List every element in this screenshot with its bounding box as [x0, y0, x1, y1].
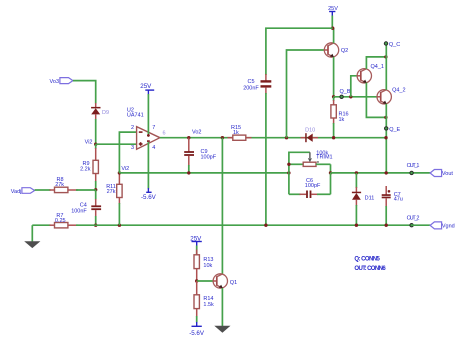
- svg-text:Q1: Q1: [230, 280, 237, 286]
- svg-text:Vo2: Vo2: [192, 130, 201, 136]
- svg-text:Vgnd: Vgnd: [442, 224, 455, 230]
- wire 25V to Q2 collector: [333, 28, 335, 43]
- svg-text:Vi2: Vi2: [85, 139, 93, 145]
- node C7 bottom: [385, 224, 388, 227]
- svg-text:6: 6: [163, 131, 166, 137]
- op-amp 25V supply: [140, 83, 154, 134]
- wire Q1 emitter: [221, 288, 223, 326]
- svg-text:7: 7: [152, 125, 155, 131]
- capacitor C5 200nF: [243, 74, 271, 225]
- node Vi2: [85, 139, 98, 146]
- svg-text:1.5k: 1.5k: [203, 302, 214, 308]
- node Q2 base: [285, 136, 288, 139]
- wire Vo3 to D9: [73, 81, 96, 104]
- node C5 bottom: [264, 224, 267, 227]
- svg-text:27k: 27k: [55, 182, 64, 188]
- svg-text:3: 3: [131, 145, 134, 151]
- node pot left terminal: [287, 163, 290, 166]
- node collectors join: [384, 55, 387, 58]
- svg-text:1k: 1k: [233, 130, 239, 136]
- svg-text:2.2k: 2.2k: [80, 167, 91, 173]
- wire Q_B line: [334, 96, 378, 98]
- svg-text:D9: D9: [102, 110, 109, 116]
- resistor R16 1k: [331, 97, 349, 138]
- wire pin2 loop: [119, 132, 136, 173]
- diode D11: [352, 173, 374, 225]
- node Q1 base: [195, 279, 198, 282]
- svg-text:27k: 27k: [107, 189, 116, 195]
- transistor Q2: [324, 43, 348, 58]
- transistor Q1: [213, 274, 237, 289]
- node R16 bottom: [332, 136, 335, 139]
- svg-text:Q4_2: Q4_2: [392, 88, 405, 94]
- resistor R8 27k: [55, 177, 79, 192]
- wire Q1 collector vertical: [221, 138, 223, 274]
- capacitor C6 100pF: [289, 173, 331, 198]
- wire Q2 base vertical: [287, 50, 325, 138]
- node Q_B line left: [332, 95, 335, 98]
- svg-text:Q_B: Q_B: [340, 89, 351, 95]
- wire R8 to node: [76, 189, 96, 191]
- svg-text:Q4_1: Q4_1: [371, 64, 384, 70]
- svg-text:0.25: 0.25: [55, 218, 66, 224]
- wire D9 to node Vi2: [95, 119, 97, 144]
- svg-text:4: 4: [152, 145, 155, 151]
- wire OUT_1 rail: [331, 172, 431, 174]
- resistor R9 2.2k: [80, 144, 98, 190]
- svg-text:-5.6V: -5.6V: [189, 330, 205, 337]
- svg-text:D11: D11: [365, 196, 375, 202]
- wire Q4_2 collector to Q_C: [385, 44, 387, 90]
- svg-text:OUT_2: OUT_2: [407, 215, 420, 221]
- wire Vadj to R8: [35, 189, 51, 191]
- ground (left): [24, 225, 40, 248]
- trimmer TRIM1 100k: [289, 150, 333, 166]
- capacitor C4 100nF: [71, 190, 101, 225]
- resistor R13 10k: [194, 250, 213, 282]
- wire Vi2 to op-amp pin 3: [96, 143, 137, 145]
- port OUT_2: [407, 215, 420, 227]
- svg-text:Vo3: Vo3: [50, 79, 59, 85]
- node C9 top: [187, 136, 190, 139]
- svg-text:Q: CONN5: Q: CONN5: [354, 257, 380, 263]
- 25V supply (bottom): [190, 235, 202, 255]
- wire Q4_1 base: [351, 76, 358, 97]
- svg-text:2: 2: [131, 125, 134, 131]
- node rail right of pot: [329, 171, 332, 174]
- svg-text:100pF: 100pF: [305, 183, 321, 189]
- port Q_E: [385, 127, 401, 133]
- svg-text:Vi2: Vi2: [121, 166, 129, 172]
- node 25V branch: [331, 27, 334, 30]
- svg-text:Q2: Q2: [341, 48, 348, 54]
- port Q_B: [340, 89, 351, 98]
- capacitor C7 47u: [382, 186, 403, 225]
- wire R7 to rail: [76, 224, 96, 226]
- svg-text:Vadj: Vadj: [11, 189, 22, 195]
- port OUT_1: [407, 163, 420, 174]
- op-amp -5.6V supply: [141, 142, 157, 201]
- bottom rail (Vgnd net): [96, 224, 412, 226]
- wire op-amp output Vo2 line: [160, 130, 386, 138]
- svg-text:100nF: 100nF: [71, 208, 87, 214]
- node C4 bottom: [94, 224, 97, 227]
- op-amp U1 UA741: [127, 107, 166, 150]
- node R8/R9/C4: [94, 188, 97, 191]
- node R11 bottom: [118, 224, 121, 227]
- node Q_E / Vo2 line end: [384, 136, 387, 139]
- port Vo3: [50, 78, 73, 85]
- node D11 top: [355, 171, 358, 174]
- node rail left of pot: [287, 171, 290, 174]
- ground (Q1 emitter): [214, 326, 230, 333]
- node C9 bottom: [187, 171, 190, 174]
- node Q1 collector top: [221, 136, 224, 139]
- svg-text:C5: C5: [247, 79, 254, 85]
- resistor R14 1.5k: [194, 281, 214, 317]
- svg-text:OUT_1: OUT_1: [407, 163, 420, 169]
- inverting rail to pot block: [119, 172, 289, 174]
- svg-text:Q_C: Q_C: [389, 42, 400, 48]
- diode D10: [301, 128, 319, 143]
- resistor R11 27k: [106, 173, 122, 225]
- -5.6V supply (bottom): [189, 316, 205, 337]
- node Q4_1 base branch: [349, 95, 352, 98]
- wire OUT_2 to Vgnd: [412, 224, 431, 226]
- port Vgnd: [430, 222, 455, 230]
- transistor Q4_2: [377, 88, 406, 104]
- wire 25V to C5: [266, 28, 333, 75]
- capacitor C9 100pF: [184, 138, 217, 173]
- diode D9: [91, 103, 109, 120]
- svg-text:OUT: CONN6: OUT: CONN6: [354, 266, 386, 272]
- port Vout: [430, 170, 453, 178]
- svg-text:47u: 47u: [394, 197, 403, 203]
- svg-text:25V: 25V: [140, 83, 152, 90]
- svg-text:10k: 10k: [203, 263, 212, 269]
- svg-text:-5.6V: -5.6V: [141, 194, 157, 201]
- node D11 bottom: [355, 224, 358, 227]
- svg-text:Vout: Vout: [442, 171, 453, 177]
- resistor R7 0.25: [32, 213, 78, 228]
- node emitters join: [384, 116, 387, 119]
- wire Q4_1 collector: [366, 57, 386, 69]
- wire Q2 emitter vertical: [333, 57, 335, 97]
- wire Q4_2 emitter down: [385, 104, 387, 173]
- port Q_C: [384, 42, 400, 48]
- resistor R15 1k: [228, 125, 252, 141]
- svg-text:100pF: 100pF: [201, 155, 217, 161]
- 25V supply (top): [328, 6, 338, 28]
- svg-text:1k: 1k: [339, 117, 345, 123]
- transistor Q4_1: [357, 64, 384, 83]
- svg-text:D10: D10: [305, 128, 315, 134]
- node Vi2 (inverting input): [118, 166, 130, 175]
- svg-text:UA741: UA741: [127, 112, 144, 118]
- wire base to Q1: [197, 280, 214, 282]
- svg-text:200nF: 200nF: [243, 85, 259, 91]
- wire pot right down: [330, 164, 332, 173]
- port Vadj: [11, 188, 35, 195]
- node C7 top: [385, 171, 388, 174]
- svg-text:Q_E: Q_E: [389, 127, 400, 133]
- wire wiper loop: [289, 152, 310, 173]
- wire Q4_1 emitter: [366, 83, 386, 118]
- svg-text:TRIM1: TRIM1: [316, 155, 333, 161]
